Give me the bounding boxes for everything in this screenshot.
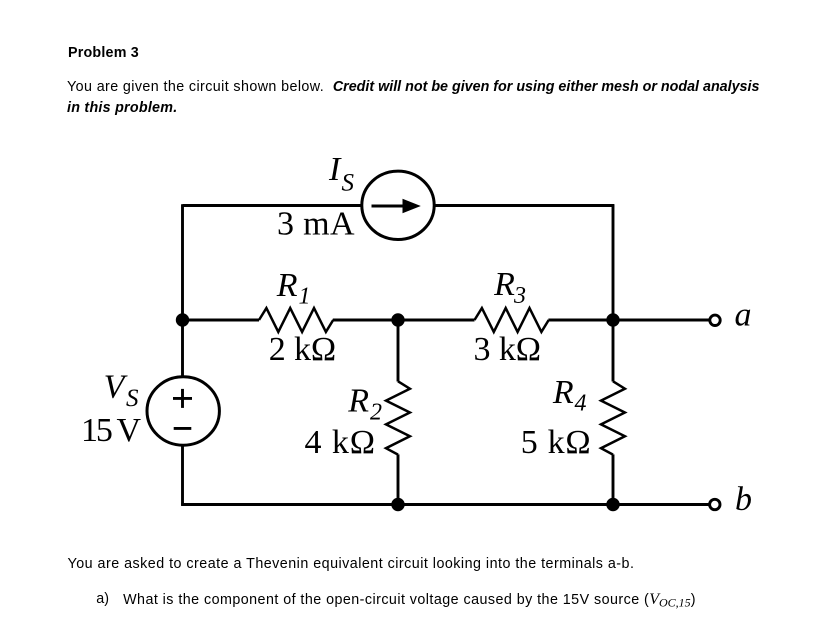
paragraph line 1 bbox=[67, 80, 759, 94]
svg-text:4 kΩ: 4 kΩ bbox=[305, 424, 376, 461]
svg-text:1: 1 bbox=[299, 284, 311, 310]
wire right rail upper bbox=[612, 204, 615, 381]
current source IS bbox=[362, 171, 434, 239]
bottom paragraph bbox=[68, 557, 635, 571]
svg-text:S: S bbox=[342, 170, 355, 197]
svg-text:3: 3 bbox=[513, 283, 526, 309]
paragraph line 2 bbox=[67, 101, 177, 115]
svg-text:V: V bbox=[104, 368, 129, 405]
voltage source VS bbox=[147, 377, 219, 445]
svg-text:a: a bbox=[735, 296, 752, 333]
resistor R4 bbox=[601, 381, 625, 454]
node center-middle junction bbox=[391, 313, 404, 326]
terminal b bbox=[710, 499, 720, 509]
resistor R3 bbox=[475, 308, 549, 332]
svg-text:b: b bbox=[735, 481, 752, 518]
node center-bottom junction bbox=[391, 498, 404, 511]
svg-text:I: I bbox=[328, 151, 342, 188]
wire left rail lower bbox=[181, 445, 184, 506]
svg-text:15 V: 15 V bbox=[81, 412, 141, 449]
svg-text:S: S bbox=[126, 385, 139, 412]
svg-text:R: R bbox=[552, 374, 574, 411]
wire top rail left of current source bbox=[183, 204, 364, 207]
resistor R1 bbox=[259, 308, 333, 332]
svg-text:R: R bbox=[493, 266, 515, 303]
wire top rail right of current source bbox=[433, 204, 614, 207]
wire middle rail segment center bbox=[333, 319, 475, 322]
item a) bbox=[96, 592, 109, 606]
svg-text:4: 4 bbox=[575, 390, 587, 416]
resistor R2 bbox=[386, 381, 410, 454]
svg-text:3 mA: 3 mA bbox=[277, 206, 355, 243]
svg-text:2 kΩ: 2 kΩ bbox=[269, 331, 337, 368]
wire terminal a lead bbox=[613, 319, 710, 322]
svg-text:5 kΩ: 5 kΩ bbox=[521, 424, 591, 461]
node right-bottom junction bbox=[606, 498, 619, 511]
svg-text:3 kΩ: 3 kΩ bbox=[474, 331, 542, 368]
svg-text:R: R bbox=[276, 267, 298, 304]
wire right rail lower bbox=[612, 454, 615, 505]
wire left rail upper bbox=[181, 204, 184, 378]
terminal a bbox=[710, 315, 720, 325]
svg-text:R: R bbox=[347, 383, 369, 420]
node left-middle junction bbox=[176, 313, 189, 326]
wire middle rail segment right bbox=[548, 319, 613, 322]
svg-text:2: 2 bbox=[370, 399, 382, 425]
node right-middle junction bbox=[606, 313, 619, 326]
wire middle column upper stub bbox=[397, 320, 400, 382]
wire middle rail segment left bbox=[183, 319, 260, 322]
heading "Problem 3" bbox=[68, 46, 139, 60]
wire middle column lower stub bbox=[397, 454, 400, 504]
wire bottom rail bbox=[181, 503, 709, 506]
